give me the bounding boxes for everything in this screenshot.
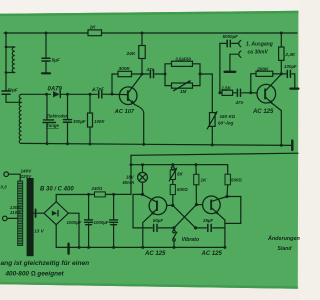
wire 5000uF to jack	[232, 42, 238, 44]
node collector third stage	[280, 72, 283, 75]
svg-text:47n: 47n	[235, 100, 244, 105]
node base AC107	[111, 93, 114, 96]
capacitor C6 47n plates	[149, 70, 151, 77]
wire 2,4K branch	[280, 33, 282, 47]
wire emitter third stage to rail	[273, 104, 282, 145]
svg-text:2,4K: 2,4K	[285, 52, 296, 57]
wire pot to rail	[211, 126, 213, 145]
svg-text:ca 30mV: ca 30mV	[248, 50, 269, 56]
svg-text:240Ω: 240Ω	[91, 186, 103, 191]
wire 2,4K to collector node	[280, 60, 282, 74]
wire 5K to 500	[172, 180, 174, 185]
wire cross coupling B	[174, 205, 196, 228]
node RC out	[199, 73, 202, 76]
svg-text:0,5µF60: 0,5µF60	[176, 56, 192, 61]
rail end tick	[291, 141, 293, 150]
wire to base of U1	[103, 93, 127, 95]
node 5uF tap	[45, 32, 48, 35]
wire 50uF left leg	[143, 227, 152, 229]
wire to volume pot	[200, 74, 212, 113]
transformer TR1 primary winding	[18, 181, 23, 246]
svg-text:+: +	[92, 88, 95, 93]
node 24K tap	[141, 32, 144, 35]
svg-text:500Ω: 500Ω	[231, 177, 242, 182]
node dropper B on rail	[66, 142, 69, 145]
wire lamp top	[142, 165, 144, 173]
terminal 220V input	[4, 172, 9, 177]
wire 200K left leg	[251, 74, 256, 93]
svg-text:1K: 1K	[201, 177, 208, 182]
wire base row third stage	[220, 92, 222, 94]
wire coil L1 top stub	[6, 46, 15, 48]
node cap 1000uF a	[87, 193, 90, 196]
capacitor C13 1000uF dropper a	[88, 194, 90, 220]
svg-text:50mA: 50mA	[123, 180, 135, 185]
node X right bottom	[194, 226, 197, 229]
node switch on bottom rail	[173, 246, 176, 249]
wire 25uF right leg	[213, 227, 225, 229]
svg-text:B 30 / C 400: B 30 / C 400	[40, 187, 74, 193]
wire after diode	[61, 93, 98, 95]
wire 100uF branch	[281, 73, 286, 75]
wire 5uF branch	[45, 33, 47, 58]
node top-left	[5, 32, 8, 35]
node collector AC107	[141, 73, 144, 76]
node 300uF tap	[66, 93, 69, 96]
svg-text:100K: 100K	[94, 119, 105, 124]
inductor L2 reed pickup coil	[19, 94, 21, 143]
output jack terminal 1	[239, 40, 241, 46]
svg-text:150 KΩ: 150 KΩ	[220, 114, 236, 119]
node X left bottom	[172, 226, 175, 229]
transistor U1 AC107	[119, 87, 137, 105]
output jack terminal 2	[239, 51, 241, 57]
wire bridge minus to ground rail	[55, 225, 57, 248]
resistor R7 1,5K body	[222, 90, 233, 95]
wire coil L1 bottom stub	[6, 72, 15, 74]
capacitor C12 25uF plates	[207, 224, 209, 231]
svg-text:200K: 200K	[256, 66, 269, 72]
bottom ground rail	[56, 246, 225, 248]
node coil L1 top	[5, 46, 8, 49]
svg-text:500Ω: 500Ω	[177, 187, 188, 192]
svg-text:25µF: 25µF	[202, 218, 213, 223]
wire collector loop left	[133, 194, 143, 228]
capacitor C3 electrode/reed plates	[44, 119, 54, 121]
resistor R13 500ohm collector body	[225, 174, 230, 185]
node 100K tap	[89, 93, 92, 96]
capacitor C14 1000uF dropper b	[113, 194, 115, 220]
node dropper C on rail	[89, 143, 92, 146]
svg-text:1K: 1K	[90, 25, 97, 31]
wire 500 to base left MV	[172, 195, 174, 206]
supply riser	[130, 155, 132, 194]
svg-text:Vibrato: Vibrato	[182, 237, 200, 243]
svg-text:Stand: Stand	[278, 246, 293, 252]
svg-text:1000µF: 1000µF	[67, 220, 82, 225]
svg-text:400-800 Ω geeignet: 400-800 Ω geeignet	[5, 271, 65, 278]
wire 1K to base right MV	[195, 185, 197, 205]
wire below C5	[45, 62, 47, 73]
transistor U2 AC125 output	[257, 84, 276, 103]
ground bar below C5	[42, 72, 50, 74]
wire 1K bias branch	[195, 165, 197, 175]
svg-text:AC 125: AC 125	[201, 251, 223, 257]
node RC net right	[199, 73, 202, 76]
node emitter right on bottom rail	[223, 246, 226, 249]
svg-text:0A79: 0A79	[48, 87, 63, 93]
wire lamp to collector node	[142, 182, 144, 194]
transistor Q3 AC125 right MV	[203, 196, 221, 214]
wire collector node to 47n	[142, 73, 149, 75]
svg-text:300K: 300K	[119, 66, 131, 72]
wire top supply rail	[4, 32, 297, 34]
capacitor C5 5uF plates	[42, 57, 50, 59]
capacitor C11 50uF plates	[153, 224, 155, 231]
wire bridge plus to supply line	[56, 194, 131, 201]
svg-text:0,3: 0,3	[1, 184, 8, 189]
svg-text:110V: 110V	[10, 210, 21, 215]
node collector left MV	[141, 193, 144, 196]
svg-text:1M: 1M	[180, 89, 187, 94]
wire emitter right MV to rail	[219, 214, 225, 247]
node output cap tap	[218, 91, 221, 94]
capacitor C2 4,7nF	[98, 91, 100, 98]
wire 200K right leg	[273, 73, 282, 75]
wire cross coupling A	[173, 205, 196, 228]
multivibrator rail R3	[131, 165, 228, 175]
svg-text:5000µF: 5000µF	[223, 34, 239, 39]
node 5K tap	[171, 163, 174, 166]
wire jack2 to ground	[230, 54, 238, 70]
resistor R11 500ohm body	[170, 185, 175, 195]
wire left column	[5, 33, 7, 90]
wire to 5000uF	[220, 43, 226, 92]
wire dropper 300uF	[67, 94, 69, 119]
supply feed rail R2	[131, 153, 298, 155]
node AC125 output emitter on rail	[280, 144, 283, 147]
node riser on R3	[130, 163, 133, 166]
node reed branch	[45, 93, 48, 96]
svg-text:100µF: 100µF	[284, 64, 297, 69]
svg-text:AC 107: AC 107	[114, 109, 135, 115]
capacitor C8 5000uF plates	[226, 40, 228, 46]
node base right MV	[195, 203, 198, 206]
wire 500 to collector right MV	[226, 185, 229, 197]
wire 47n to base	[242, 92, 257, 94]
wire 24K branch	[141, 33, 143, 74]
svg-text:50µF: 50µF	[153, 218, 163, 223]
node pot on rail	[211, 143, 214, 146]
mid common rail	[22, 143, 293, 145]
resistor R4 300K body	[118, 71, 132, 76]
svg-text:Änderungen: Änderungen	[267, 235, 300, 242]
node dropper A on rail	[46, 142, 49, 145]
node ac2 on rail	[78, 246, 81, 249]
svg-text:5µF: 5µF	[52, 57, 61, 63]
node lamp tap	[141, 163, 144, 166]
resistor R12 1K body	[194, 174, 199, 185]
wire 25uF left leg	[196, 227, 207, 229]
svg-text:50µF: 50µF	[8, 87, 18, 92]
svg-text:5K: 5K	[177, 172, 184, 177]
wire RC top branch	[165, 64, 200, 74]
wire emitter left MV to rail	[143, 215, 151, 248]
node collector right MV	[225, 195, 228, 198]
resistor R3 24K body	[139, 46, 145, 59]
svg-text:1. Ausgang: 1. Ausgang	[246, 41, 273, 47]
wire reed row	[22, 93, 51, 95]
wire secondary to bridge	[34, 212, 44, 214]
node base left MV	[171, 204, 174, 207]
svg-text:1,5K: 1,5K	[222, 86, 232, 91]
resistor R9 2,4K body	[279, 47, 284, 60]
svg-text:220V: 220V	[20, 174, 33, 179]
wire 5K top with terminal	[172, 165, 174, 167]
bridge rectifier B30/C400	[44, 202, 68, 225]
terminal tick secondary	[35, 209, 37, 217]
wire 100uF to ground	[292, 74, 295, 88]
node base third stage	[249, 91, 252, 94]
node emitter left on bottom rail	[141, 246, 144, 249]
wire below C1	[6, 95, 22, 103]
resistor R8 200K body	[256, 71, 273, 76]
transistor Q2 AC125 left MV	[149, 197, 167, 215]
wire 300K left leg	[112, 74, 118, 94]
svg-text:Zunge: Zunge	[45, 123, 59, 128]
svg-text:AC 125: AC 125	[144, 251, 166, 257]
capacitor C9 47n plates	[236, 89, 238, 96]
node RC net left	[164, 73, 167, 76]
wire bridge ac2 leg	[68, 213, 79, 247]
wire 47n to RC network	[155, 73, 165, 75]
wire dropper 100K	[89, 94, 91, 144]
svg-text:60°-log: 60°-log	[218, 120, 234, 125]
capacitor C1 50uF plates	[2, 90, 10, 92]
wire R7 to 47n	[233, 92, 236, 94]
svg-text:47n: 47n	[146, 67, 155, 72]
potentiometer R6 150K body	[210, 113, 216, 127]
ground bar 100uF	[290, 87, 298, 89]
svg-text:1000µF: 1000µF	[94, 220, 109, 225]
terminal 110V tap	[3, 216, 8, 221]
node coil L1 bottom	[5, 71, 8, 74]
trimmer R5 1M body	[172, 83, 193, 88]
wire below C4	[67, 123, 69, 144]
svg-text:ang ist gleichzeitig für einen: ang ist gleichzeitig für einen	[1, 260, 90, 267]
transformer TR1 core	[27, 178, 34, 256]
switch vibrato	[173, 228, 175, 230]
trimmer R10 5K body	[170, 170, 175, 180]
svg-text:Elektroden: Elektroden	[46, 114, 69, 119]
capacitor C4 300uF plates	[64, 119, 72, 121]
lamp 18V 50mA	[138, 172, 148, 182]
node 2,4K tap	[280, 32, 283, 35]
wire 300K right leg	[132, 73, 143, 75]
wire AC107 emitter to rail	[135, 105, 144, 145]
ground bar output jack	[225, 71, 236, 73]
node cap 1000uF b	[112, 193, 115, 196]
resistor R14 240ohm body	[95, 192, 106, 197]
wire reed to ground rail	[46, 123, 48, 144]
wire collector loop right	[225, 197, 241, 224]
node AC107 emitter on rail	[142, 143, 145, 146]
wire dropper reed electrode	[46, 94, 48, 119]
resistor R1 1K body (series in rail)	[88, 30, 102, 36]
svg-text:300µF: 300µF	[73, 119, 86, 124]
node 1K tap	[194, 163, 197, 166]
capacitor C7 0,5uF body	[172, 61, 193, 66]
capacitor C10 100uF plates	[286, 70, 288, 77]
svg-text:13 V: 13 V	[34, 228, 44, 233]
diode D1 0A79	[53, 91, 60, 97]
inductor L1 generator coil	[12, 47, 15, 73]
wire RC bottom branch	[165, 74, 200, 86]
resistor R2 100K body	[88, 113, 93, 127]
svg-text:AC 125: AC 125	[252, 109, 274, 115]
svg-text:24K: 24K	[126, 51, 136, 57]
wire 50uF right leg	[158, 227, 174, 229]
rail left terminal tick	[67, 244, 69, 254]
